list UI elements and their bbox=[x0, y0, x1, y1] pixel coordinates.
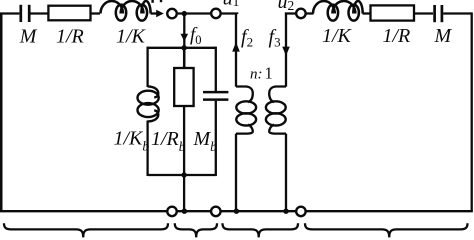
resistor 1/Rb vertical wire into box bbox=[183, 48, 185, 68]
brace section 4 bbox=[305, 223, 468, 237]
capacitor Mb branch wire bottom bbox=[215, 101, 217, 176]
svg-text:1/Kb: 1/Kb bbox=[114, 127, 150, 153]
svg-text:Mb: Mb bbox=[193, 128, 218, 154]
wire resistor to cap bbox=[414, 12, 433, 14]
arrow f1 (right) bbox=[156, 10, 164, 17]
f0 branch vertical wire bbox=[183, 14, 185, 68]
wire bottom rail to bottom bus bbox=[183, 175, 185, 211]
transformer secondary bottom stub bbox=[269, 125, 286, 134]
svg-text:1/Rb: 1/Rb bbox=[151, 128, 186, 154]
transformer secondary lead to bottom bus bbox=[285, 134, 287, 212]
wire corner to u2 bbox=[285, 12, 295, 14]
wire u2 to right coil bbox=[307, 12, 314, 14]
junction dot bottom f0 bbox=[182, 209, 187, 214]
wire left edge vertical bbox=[0, 14, 3, 212]
arrow f0 (down) bbox=[181, 34, 189, 42]
svg-text:u1: u1 bbox=[223, 0, 240, 10]
transformer primary winding loops bbox=[236, 101, 256, 125]
arrow f2 (up) bbox=[232, 42, 240, 52]
transformer secondary winding loops bbox=[266, 101, 286, 125]
junction dot bottom rail bbox=[181, 172, 186, 177]
transformer secondary top stub bbox=[269, 87, 286, 103]
svg-text:M: M bbox=[434, 25, 453, 47]
inductor 1/K (right) bbox=[313, 1, 363, 21]
svg-text:1/K: 1/K bbox=[322, 25, 353, 47]
transformer primary lead from u1 down bbox=[235, 14, 237, 87]
transformer primary top stub bbox=[236, 87, 253, 103]
label f1 remnant marks (cropped at top) bbox=[151, 0, 153, 3]
svg-text:u2: u2 bbox=[278, 0, 295, 13]
resistor 1/Rb box bbox=[174, 68, 193, 106]
capacitor Mb plates bbox=[203, 92, 228, 100]
capacitor M (right) bbox=[435, 5, 442, 22]
wire cap to resistor bbox=[31, 12, 49, 14]
wire u1 to corner down bbox=[222, 12, 238, 15]
inductor 1/K (left) bbox=[101, 1, 151, 21]
svg-text:1/K: 1/K bbox=[116, 26, 147, 48]
parallel group top rail bbox=[148, 47, 216, 49]
resistor 1/R (right) bbox=[371, 5, 415, 20]
resistor 1/Rb wire box to bottom rail bbox=[183, 106, 185, 175]
wire resistor to coil bbox=[91, 12, 101, 14]
wire top left horizontal bbox=[0, 12, 19, 14]
transformer secondary lead from u2 down bbox=[285, 14, 287, 87]
node circle bottom port 1 bbox=[167, 207, 177, 217]
wire right edge vertical bbox=[471, 12, 473, 211]
node circle bottom port u1 bbox=[211, 207, 221, 217]
bottom bus wire bbox=[0, 210, 473, 212]
junction dot bottom secondary bbox=[283, 209, 288, 214]
arrow f3 (down) bbox=[282, 47, 290, 56]
resistor 1/R (left) bbox=[48, 6, 90, 21]
svg-text:f2: f2 bbox=[241, 26, 253, 50]
junction dot top rail bbox=[181, 45, 186, 50]
parallel group bottom rail bbox=[148, 174, 217, 176]
capacitor Mb branch wire top bbox=[215, 47, 217, 91]
svg-text:1/R: 1/R bbox=[56, 26, 84, 48]
transformer primary bottom stub bbox=[236, 125, 253, 134]
inductor 1/Kb coil bbox=[138, 86, 159, 121]
node u2 terminal (top) bbox=[296, 9, 306, 19]
svg-text:n:1: n:1 bbox=[250, 64, 273, 83]
svg-text:1/R: 1/R bbox=[383, 25, 411, 47]
wire circle1 to u1 bbox=[178, 12, 211, 14]
capacitor M (left) bbox=[21, 5, 29, 22]
brace section 2 bbox=[175, 223, 217, 237]
junction dot f0 bbox=[182, 11, 187, 16]
brace section 1 bbox=[4, 223, 168, 237]
junction dot bottom primary bbox=[234, 209, 239, 214]
wire coil to arrow bbox=[151, 12, 158, 14]
wire coil to resistor bbox=[363, 12, 371, 14]
inductor 1/Kb branch wire top bbox=[146, 47, 148, 87]
svg-text:f3: f3 bbox=[269, 26, 281, 50]
node circle (left section port, top) bbox=[167, 9, 177, 19]
node u1 terminal (top) bbox=[211, 9, 221, 19]
brace section 3 bbox=[223, 223, 299, 237]
svg-text:M: M bbox=[19, 26, 38, 48]
node circle bottom port u2 bbox=[296, 207, 306, 217]
svg-text:f0: f0 bbox=[190, 25, 202, 48]
wire cap to right edge bbox=[443, 12, 471, 14]
inductor 1/Kb branch wire bottom bbox=[146, 121, 148, 177]
transformer primary lead to bottom bus bbox=[235, 134, 237, 212]
